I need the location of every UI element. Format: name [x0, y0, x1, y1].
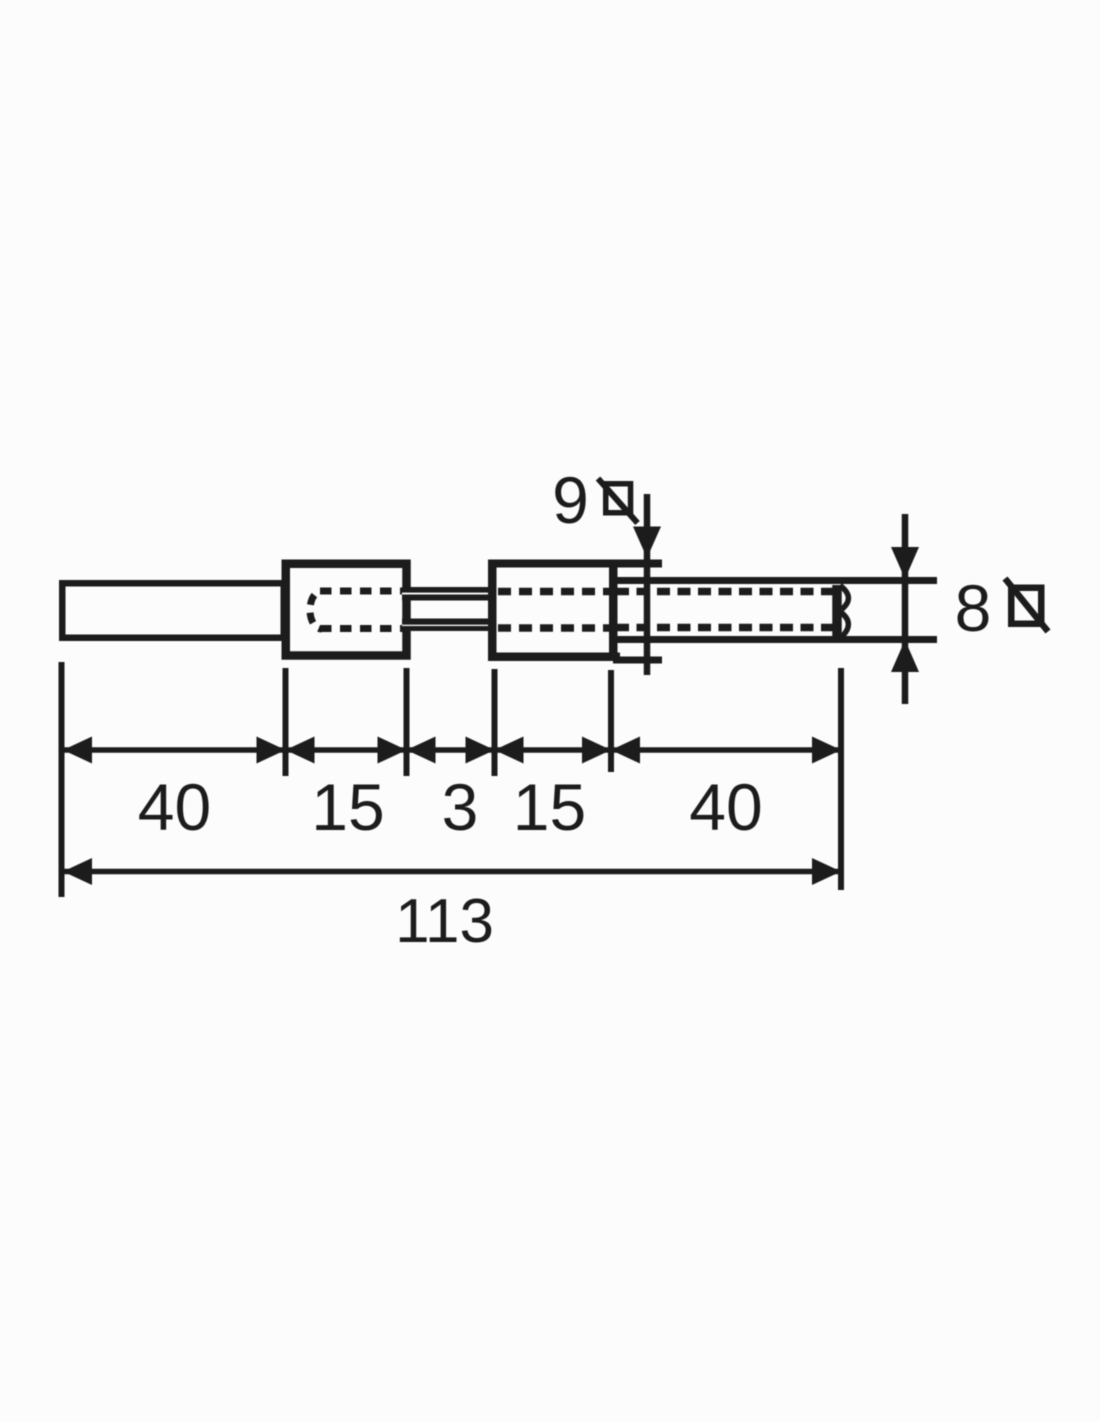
row1 arrowheads: [63, 737, 841, 764]
8-dim top arrowhead: [891, 547, 919, 579]
9-dim leader line: [644, 494, 651, 675]
8-dim vertical line: [902, 514, 909, 704]
extension line v5: [608, 670, 614, 772]
spindle hidden edges (dashed): [616, 588, 833, 596]
left round shaft: [62, 583, 284, 638]
hidden square hole in block B2 (dashed): [498, 588, 611, 596]
block B2 (right square block): [488, 560, 662, 568]
svg-text:3: 3: [442, 770, 479, 844]
svg-text:113: 113: [395, 887, 494, 956]
right square spindle top outline / extension line: [613, 577, 937, 584]
extension line v4: [492, 669, 498, 776]
spindle dashed end edge: [832, 585, 842, 639]
hidden slot in block B1 (dashed, round left end): [310, 591, 322, 629]
square symbol for 9: [606, 484, 631, 513]
svg-text:40: 40: [689, 770, 762, 844]
extension line v2: [283, 668, 289, 776]
spindle slotted end curve: [840, 586, 848, 638]
svg-text:40: 40: [138, 770, 211, 844]
block B2 bottom tick (extension for 9-dim): [613, 657, 662, 664]
extension line v3: [404, 668, 410, 776]
right square spindle bottom outline / extension line: [613, 636, 937, 643]
dimension row 2 line (113): [63, 869, 841, 875]
connector neck bottom wall (double line): [402, 619, 496, 632]
square symbol for 8: [1011, 588, 1041, 624]
svg-text:15: 15: [513, 770, 586, 844]
9-dim arrowhead: [633, 527, 661, 559]
extension line v1 (left end): [59, 662, 65, 897]
8-dim bottom arrowhead: [891, 640, 919, 672]
connector neck top wall (double line): [402, 587, 496, 601]
svg-text:9: 9: [552, 463, 589, 537]
extension line v6 (right end): [838, 668, 844, 890]
svg-text:15: 15: [311, 770, 384, 844]
dimension row 1 line: [63, 747, 841, 753]
svg-text:8: 8: [955, 571, 992, 645]
block B1 (left square block): [286, 564, 407, 656]
